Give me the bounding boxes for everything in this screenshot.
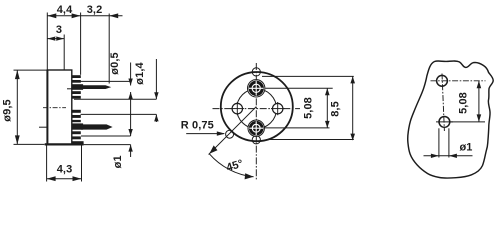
svg-text:3: 3 — [56, 24, 62, 36]
svg-text:ø1,4: ø1,4 — [134, 62, 146, 85]
svg-text:45°: 45° — [225, 158, 245, 174]
svg-text:R 0,75: R 0,75 — [181, 119, 214, 131]
svg-text:5,08: 5,08 — [303, 97, 315, 119]
svg-text:ø9,5: ø9,5 — [2, 99, 14, 121]
svg-text:8,5: 8,5 — [330, 101, 342, 117]
svg-text:ø0,5: ø0,5 — [109, 52, 121, 74]
svg-text:4,3: 4,3 — [57, 164, 73, 176]
svg-text:ø1: ø1 — [459, 141, 472, 153]
svg-text:4,4: 4,4 — [57, 4, 73, 16]
svg-text:5,08: 5,08 — [458, 92, 470, 114]
svg-text:ø1: ø1 — [112, 155, 124, 168]
svg-text:3,2: 3,2 — [87, 4, 103, 16]
